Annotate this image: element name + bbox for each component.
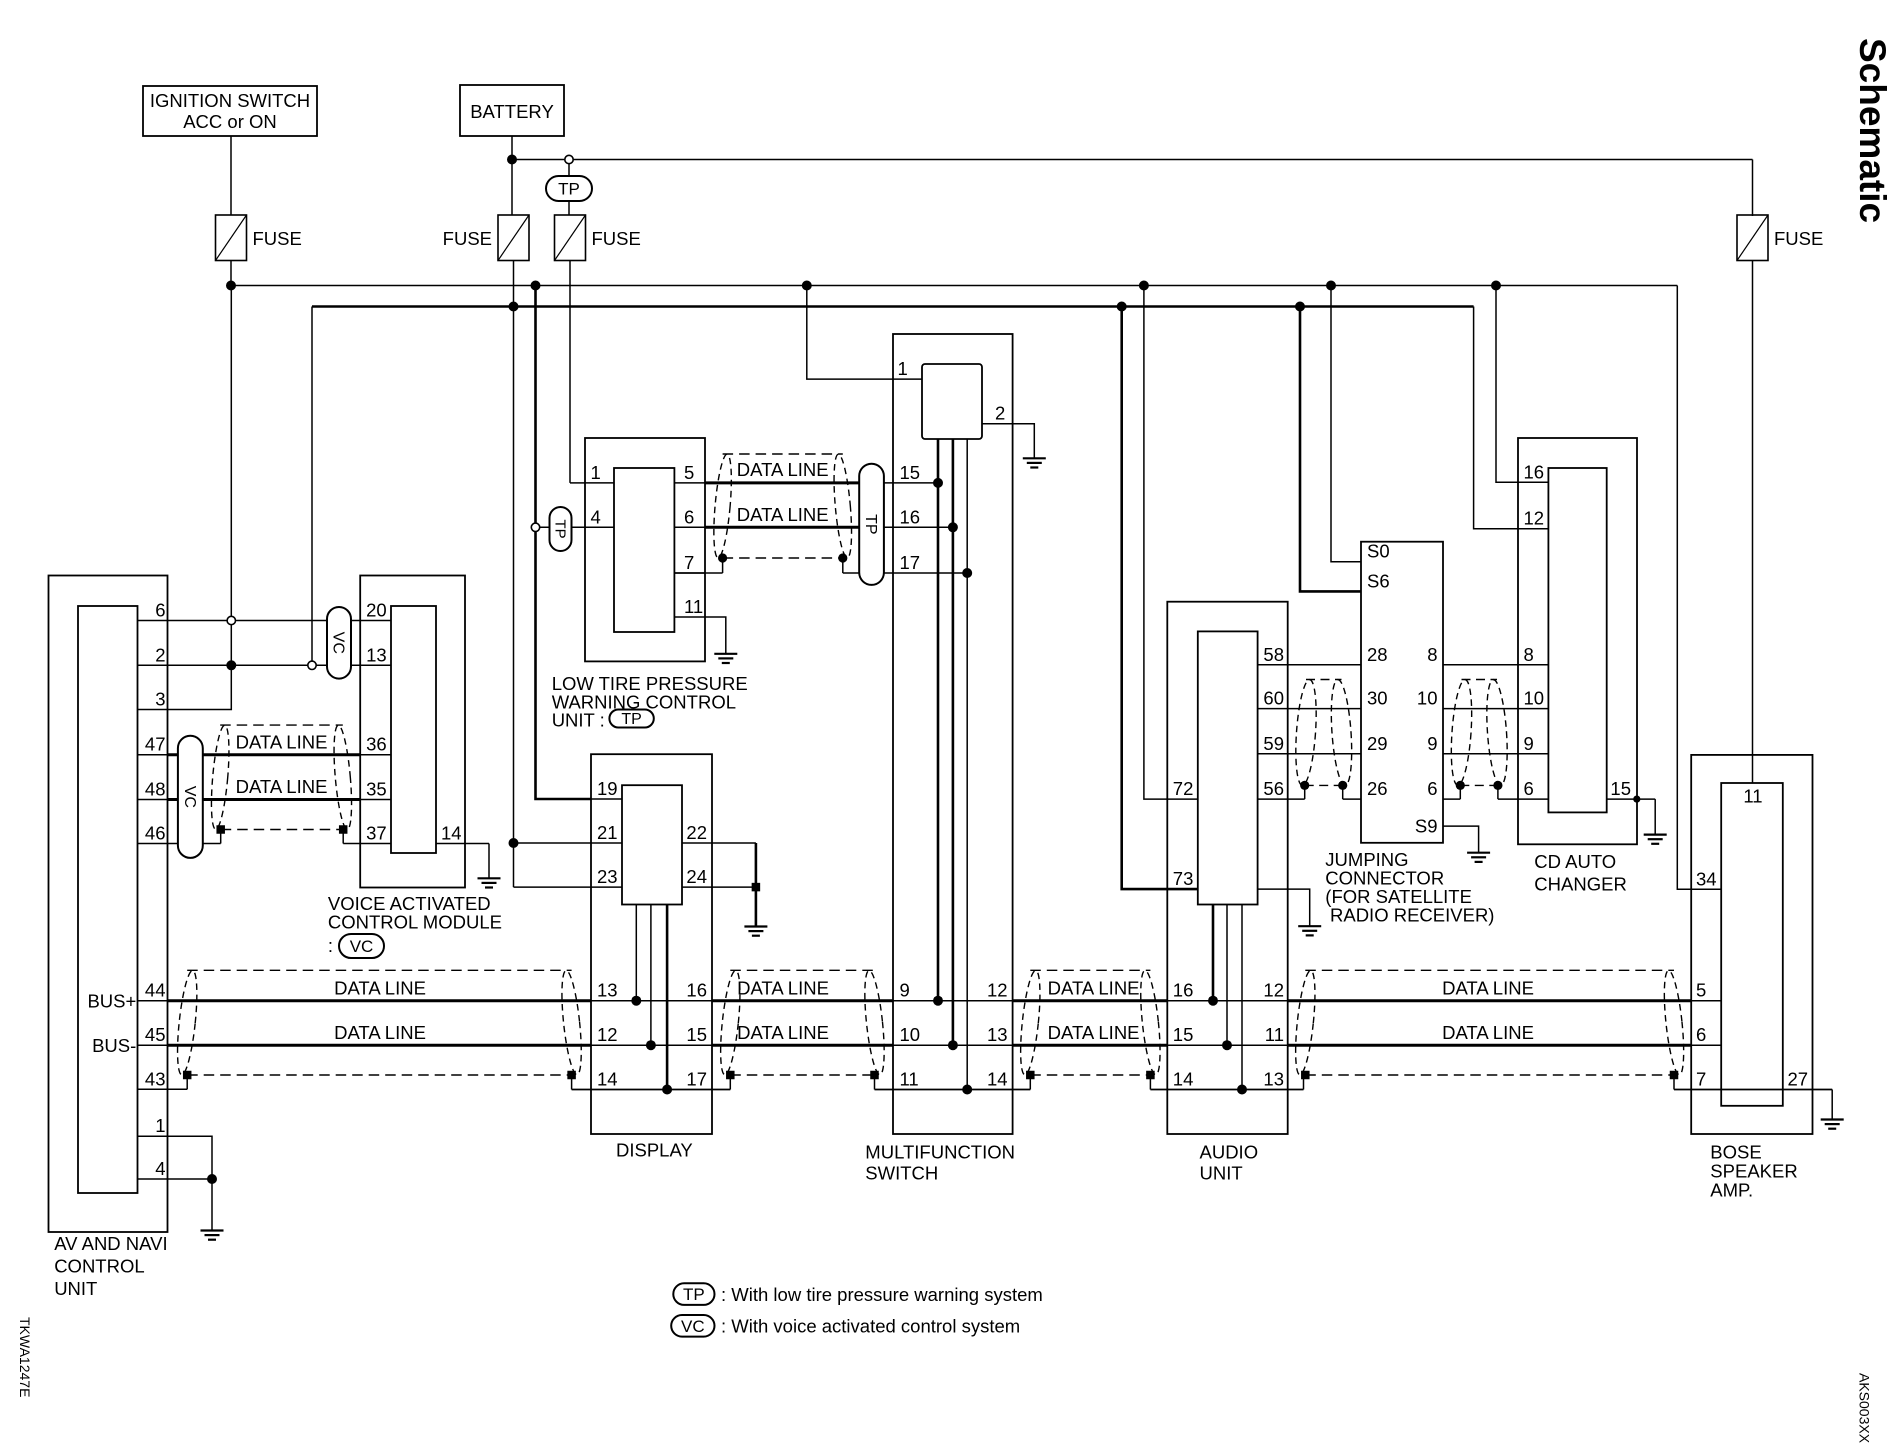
svg-text:1: 1 (591, 462, 601, 483)
svg-text::: : (328, 935, 333, 956)
svg-text:11: 11 (900, 1069, 919, 1090)
svg-text:CONTROL MODULE: CONTROL MODULE (328, 912, 502, 933)
svg-text:DATA LINE: DATA LINE (1048, 978, 1140, 999)
svg-text:SWITCH: SWITCH (865, 1163, 938, 1184)
svg-text:6: 6 (684, 506, 694, 527)
svg-text:23: 23 (597, 866, 618, 887)
svg-text:TP: TP (862, 514, 879, 534)
svg-text:8: 8 (1524, 644, 1534, 665)
svg-text:AMP.: AMP. (1710, 1180, 1753, 1201)
svg-text:9: 9 (1524, 733, 1534, 754)
svg-text:11: 11 (1265, 1024, 1284, 1045)
svg-text:6: 6 (1427, 778, 1437, 799)
svg-text:IGNITION SWITCH: IGNITION SWITCH (150, 90, 310, 111)
svg-text:TP: TP (551, 519, 568, 538)
svg-text:1: 1 (898, 358, 908, 379)
svg-text:DATA LINE: DATA LINE (236, 731, 328, 752)
svg-text:DISPLAY: DISPLAY (616, 1140, 693, 1161)
svg-text:21: 21 (597, 822, 618, 843)
svg-text:5: 5 (684, 462, 694, 483)
svg-text:ACC or ON: ACC or ON (183, 111, 277, 132)
svg-text:9: 9 (1427, 733, 1437, 754)
svg-text:BUS+: BUS+ (87, 990, 136, 1011)
svg-text:CD AUTO: CD AUTO (1534, 851, 1616, 872)
svg-text:S0: S0 (1367, 541, 1390, 562)
svg-text:15: 15 (686, 1024, 707, 1045)
svg-text:13: 13 (597, 980, 618, 1001)
svg-text:73: 73 (1173, 868, 1194, 889)
svg-text:14: 14 (441, 823, 462, 844)
svg-text:2: 2 (995, 403, 1005, 424)
svg-text:DATA LINE: DATA LINE (334, 1022, 426, 1043)
svg-text:4: 4 (155, 1158, 165, 1179)
svg-text:TP: TP (621, 711, 641, 728)
svg-text:VC: VC (181, 786, 198, 808)
svg-text:SPEAKER: SPEAKER (1710, 1161, 1797, 1182)
svg-text:11: 11 (684, 596, 703, 617)
svg-text:TKWA1247E: TKWA1247E (17, 1317, 33, 1397)
svg-text:16: 16 (686, 980, 707, 1001)
svg-text:TP: TP (683, 1285, 705, 1304)
svg-text:DATA LINE: DATA LINE (1048, 1022, 1140, 1043)
svg-text:48: 48 (145, 779, 166, 800)
svg-text:BOSE: BOSE (1710, 1142, 1761, 1163)
svg-text:8: 8 (1427, 644, 1437, 665)
svg-text:MULTIFUNCTION: MULTIFUNCTION (865, 1142, 1015, 1163)
svg-text:45: 45 (145, 1024, 166, 1045)
svg-text:15: 15 (900, 462, 921, 483)
svg-text:13: 13 (987, 1024, 1008, 1045)
svg-text:DATA LINE: DATA LINE (737, 504, 829, 525)
svg-text:UNIT :: UNIT : (552, 710, 605, 731)
svg-text:DATA LINE: DATA LINE (737, 1022, 829, 1043)
svg-text:28: 28 (1367, 644, 1388, 665)
svg-text:12: 12 (1524, 508, 1545, 529)
svg-text:6: 6 (1524, 778, 1534, 799)
svg-text:AUDIO: AUDIO (1200, 1142, 1259, 1163)
svg-text:VC: VC (350, 937, 374, 956)
svg-text:14: 14 (1173, 1069, 1194, 1090)
svg-text:: With voice activated control: : With voice activated control system (721, 1316, 1020, 1337)
svg-text:12: 12 (987, 980, 1008, 1001)
svg-text:37: 37 (366, 823, 387, 844)
svg-text:43: 43 (145, 1068, 166, 1089)
svg-text:22: 22 (686, 822, 707, 843)
svg-text:16: 16 (1173, 980, 1194, 1001)
svg-text:46: 46 (145, 823, 166, 844)
svg-text:10: 10 (1524, 688, 1545, 709)
svg-text:S6: S6 (1367, 570, 1390, 591)
svg-text:17: 17 (900, 552, 921, 573)
svg-text:11: 11 (1743, 786, 1762, 807)
svg-text:15: 15 (1610, 778, 1631, 799)
svg-text:4: 4 (591, 506, 601, 527)
svg-text:FUSE: FUSE (443, 228, 492, 249)
svg-text:36: 36 (366, 734, 387, 755)
svg-text:14: 14 (597, 1069, 618, 1090)
svg-text:FUSE: FUSE (253, 228, 302, 249)
svg-text:6: 6 (155, 600, 165, 621)
svg-text:10: 10 (900, 1024, 921, 1045)
svg-text:1: 1 (155, 1115, 165, 1136)
svg-text:CONTROL: CONTROL (54, 1256, 144, 1277)
svg-text:DATA LINE: DATA LINE (737, 978, 829, 999)
svg-text:34: 34 (1696, 868, 1717, 889)
svg-text:BUS-: BUS- (92, 1035, 136, 1056)
svg-text:20: 20 (366, 600, 387, 621)
svg-text:UNIT: UNIT (54, 1278, 97, 1299)
svg-text:DATA LINE: DATA LINE (1442, 1022, 1534, 1043)
svg-text:6: 6 (1696, 1024, 1706, 1045)
svg-text:72: 72 (1173, 778, 1194, 799)
svg-text:TP: TP (558, 179, 580, 198)
svg-text:56: 56 (1263, 778, 1284, 799)
svg-text:60: 60 (1263, 688, 1284, 709)
svg-text:13: 13 (1263, 1069, 1284, 1090)
svg-text:DATA LINE: DATA LINE (1442, 978, 1534, 999)
svg-text:30: 30 (1367, 688, 1388, 709)
svg-text:17: 17 (686, 1069, 707, 1090)
svg-text:UNIT: UNIT (1200, 1163, 1243, 1184)
svg-text:S9: S9 (1415, 816, 1438, 837)
svg-text:VC: VC (681, 1317, 705, 1336)
svg-text:15: 15 (1173, 1024, 1194, 1045)
svg-text:16: 16 (1524, 461, 1545, 482)
svg-text:FUSE: FUSE (1774, 228, 1823, 249)
svg-text:24: 24 (686, 866, 707, 887)
svg-text:9: 9 (900, 980, 910, 1001)
svg-text:14: 14 (987, 1069, 1008, 1090)
svg-text:BATTERY: BATTERY (470, 101, 554, 122)
svg-text:29: 29 (1367, 733, 1388, 754)
svg-text:DATA LINE: DATA LINE (334, 978, 426, 999)
svg-text:RADIO RECEIVER): RADIO RECEIVER) (1330, 905, 1494, 926)
svg-text:DATA LINE: DATA LINE (737, 459, 829, 480)
svg-text:12: 12 (1263, 980, 1284, 1001)
svg-text:5: 5 (1696, 980, 1706, 1001)
svg-text:47: 47 (145, 734, 166, 755)
svg-text:26: 26 (1367, 778, 1388, 799)
svg-text:12: 12 (597, 1024, 618, 1045)
svg-text:27: 27 (1788, 1069, 1809, 1090)
svg-text:DATA LINE: DATA LINE (236, 776, 328, 797)
svg-text:10: 10 (1417, 688, 1438, 709)
svg-text:7: 7 (684, 552, 694, 573)
svg-text:7: 7 (1696, 1069, 1706, 1090)
svg-text:13: 13 (366, 644, 387, 665)
svg-text:16: 16 (900, 506, 921, 527)
svg-text:VC: VC (329, 632, 346, 654)
svg-text:19: 19 (597, 778, 618, 799)
svg-text:59: 59 (1263, 733, 1284, 754)
svg-text:Schematic: Schematic (1852, 38, 1893, 223)
svg-text:2: 2 (155, 644, 165, 665)
svg-text:58: 58 (1263, 644, 1284, 665)
svg-text:FUSE: FUSE (592, 228, 641, 249)
svg-text:CHANGER: CHANGER (1534, 874, 1627, 895)
svg-text:AKS003XX: AKS003XX (1857, 1373, 1873, 1444)
svg-text:44: 44 (145, 980, 166, 1001)
svg-text:3: 3 (155, 689, 165, 710)
svg-text:AV AND NAVI: AV AND NAVI (54, 1233, 167, 1254)
svg-text:35: 35 (366, 779, 387, 800)
svg-text:: With low tire pressure warni: : With low tire pressure warning system (721, 1284, 1043, 1305)
